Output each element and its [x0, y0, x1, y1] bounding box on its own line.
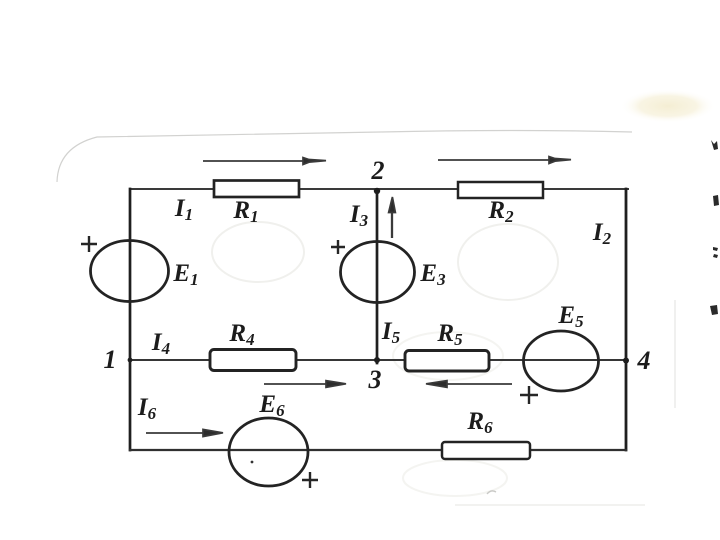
svg-text:1: 1 [104, 345, 117, 374]
svg-text:4: 4 [637, 346, 651, 375]
svg-text:3: 3 [368, 365, 382, 394]
svg-text:2: 2 [371, 156, 385, 185]
